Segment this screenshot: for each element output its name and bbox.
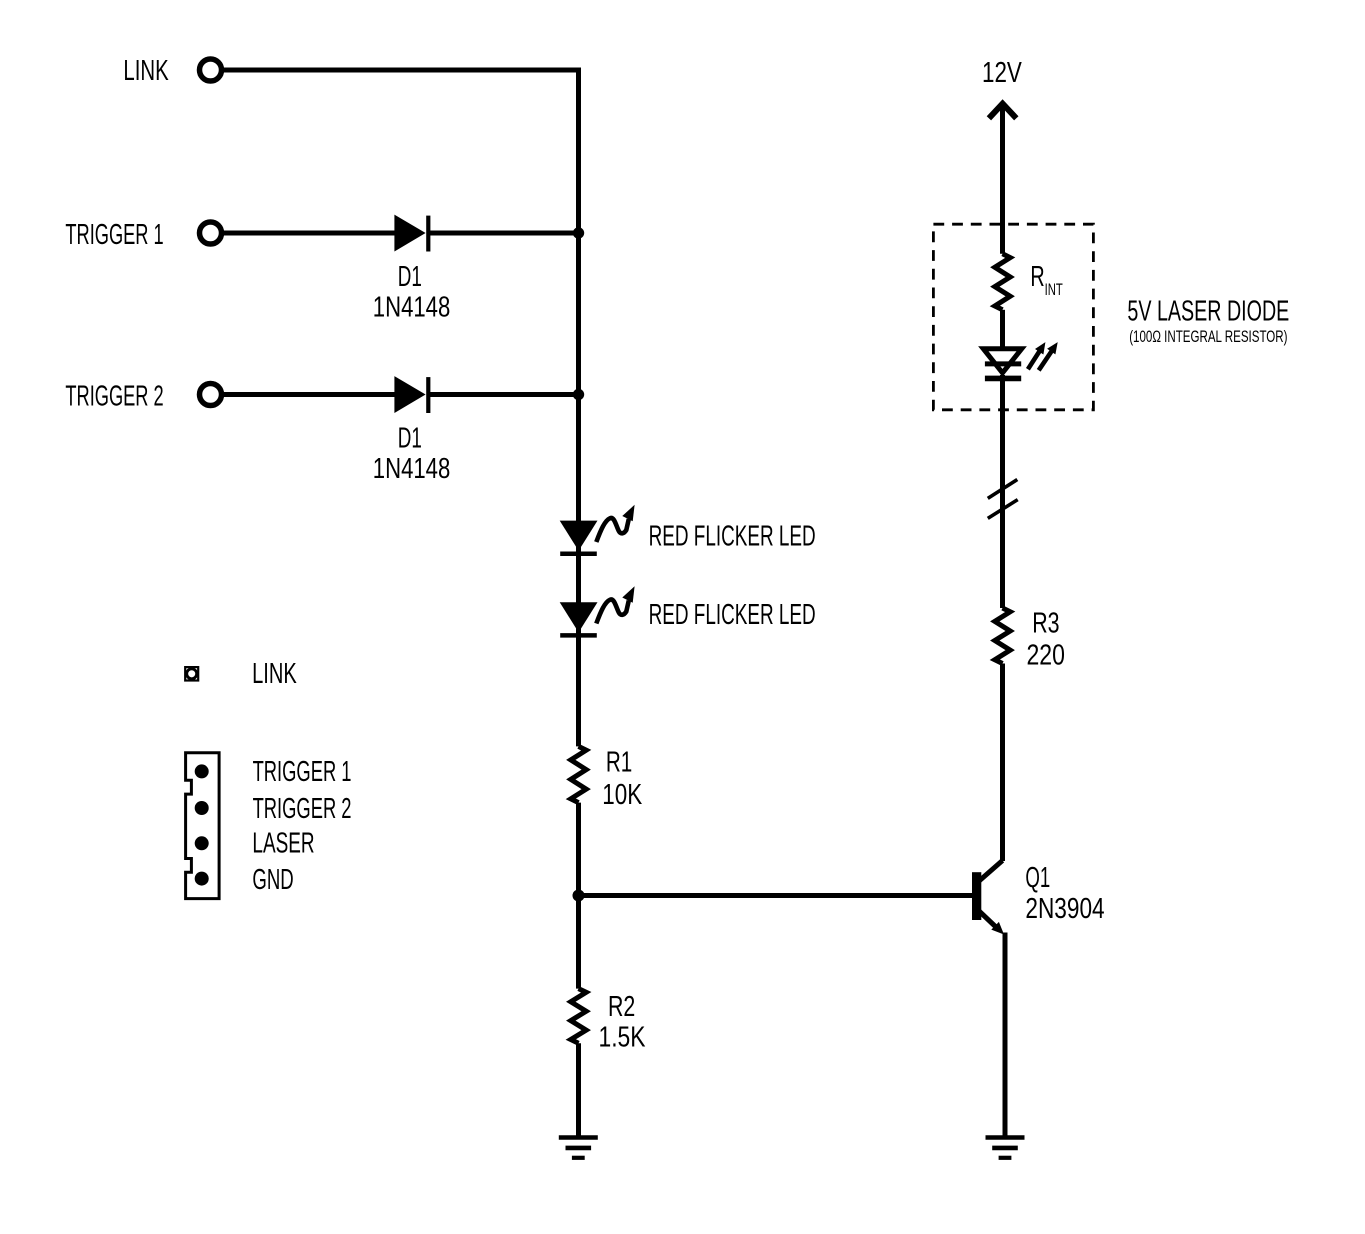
svg-text:INT: INT (1045, 280, 1063, 299)
svg-text:1.5K: 1.5K (599, 1022, 646, 1054)
svg-text:TRIGGER 1: TRIGGER 1 (65, 219, 163, 251)
svg-text:R2: R2 (608, 991, 635, 1023)
svg-text:RED FLICKER LED: RED FLICKER LED (649, 520, 816, 552)
svg-text:RED FLICKER LED: RED FLICKER LED (649, 599, 816, 631)
svg-text:R3: R3 (1032, 608, 1059, 640)
svg-text:12V: 12V (982, 57, 1022, 89)
svg-text:220: 220 (1027, 640, 1065, 672)
svg-text:R1: R1 (606, 746, 632, 778)
svg-text:1N4148: 1N4148 (373, 453, 451, 485)
svg-text:R: R (1030, 261, 1044, 293)
svg-text:(100Ω INTEGRAL RESISTOR): (100Ω INTEGRAL RESISTOR) (1129, 327, 1287, 346)
svg-text:D1: D1 (398, 261, 422, 293)
svg-text:GND: GND (252, 864, 293, 896)
svg-text:LASER: LASER (252, 828, 314, 860)
svg-text:LINK: LINK (123, 55, 168, 87)
svg-text:D1: D1 (398, 423, 422, 455)
svg-text:TRIGGER 2: TRIGGER 2 (65, 381, 163, 413)
svg-text:10K: 10K (602, 779, 642, 811)
svg-text:TRIGGER 1: TRIGGER 1 (253, 756, 352, 788)
svg-text:TRIGGER 2: TRIGGER 2 (253, 793, 352, 825)
svg-text:1N4148: 1N4148 (373, 292, 451, 324)
svg-text:LINK: LINK (252, 658, 297, 690)
svg-text:2N3904: 2N3904 (1025, 893, 1104, 925)
svg-text:Q1: Q1 (1025, 862, 1050, 894)
svg-text:5V LASER DIODE: 5V LASER DIODE (1127, 295, 1289, 327)
